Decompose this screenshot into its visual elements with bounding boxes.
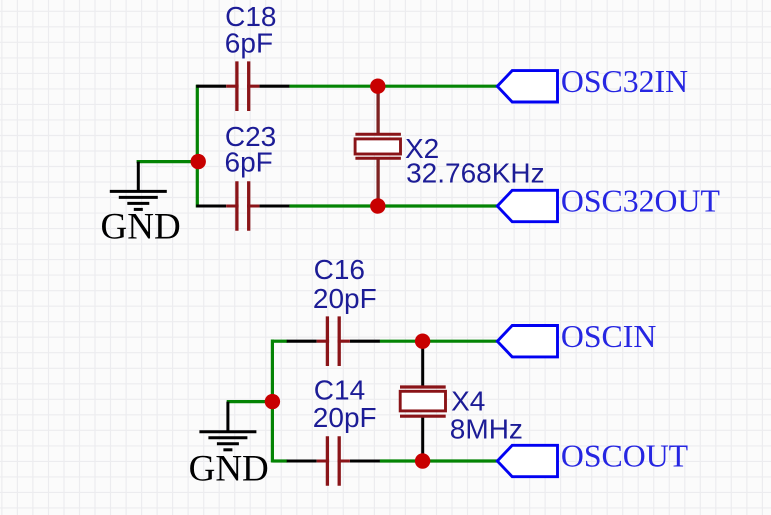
svg-text:20pF: 20pF xyxy=(313,402,377,433)
svg-text:8MHz: 8MHz xyxy=(450,413,523,444)
svg-text:OSCIN: OSCIN xyxy=(561,319,656,354)
wire: OSCIN net green xyxy=(380,340,498,343)
svg-text:6pF: 6pF xyxy=(225,28,273,59)
junction xyxy=(370,198,385,213)
svg-text:C16: C16 xyxy=(314,254,365,285)
ground xyxy=(199,432,256,450)
svg-text:20pF: 20pF xyxy=(313,283,377,314)
svg-text:6pF: 6pF xyxy=(225,147,273,178)
svg-text:C14: C14 xyxy=(314,374,365,405)
port OSCIN xyxy=(497,326,557,357)
svg-text:OSC32OUT: OSC32OUT xyxy=(561,184,720,219)
ground lead top circuit xyxy=(137,162,140,191)
wire: bottom circuit left vertical xyxy=(271,340,274,463)
ground lead bottom circuit xyxy=(226,402,229,431)
wire: OSC32IN net green xyxy=(289,85,497,88)
wire: OSCIN net green left stub xyxy=(272,340,287,343)
crystal X2 xyxy=(355,86,401,206)
svg-text:GND: GND xyxy=(101,207,181,248)
wire: GND stub to top circuit xyxy=(137,160,199,163)
wire: top circuit left vertical xyxy=(196,85,199,208)
svg-text:GND: GND xyxy=(189,449,269,490)
wire: OSCOUT net green left stub xyxy=(272,459,287,462)
junction xyxy=(370,79,385,94)
port OSCOUT xyxy=(497,445,557,476)
crystal X4 xyxy=(400,341,446,461)
capacitor C14 xyxy=(287,436,380,486)
svg-text:OSCOUT: OSCOUT xyxy=(561,439,688,474)
junction xyxy=(415,453,430,468)
svg-text:32.768KHz: 32.768KHz xyxy=(406,157,545,188)
svg-text:OSC32IN: OSC32IN xyxy=(561,64,688,99)
capacitor C18 xyxy=(196,61,289,111)
capacitor C23 xyxy=(196,181,289,231)
port OSC32OUT xyxy=(497,190,557,221)
wire: OSCOUT net green xyxy=(380,459,498,462)
wire: GND stub to bottom circuit xyxy=(227,400,274,403)
wire: OSC32OUT net green xyxy=(289,204,497,207)
junction xyxy=(191,154,206,169)
port OSC32IN xyxy=(497,71,557,102)
junction xyxy=(265,394,280,409)
svg-text:X4: X4 xyxy=(451,385,485,416)
capacitor C16 xyxy=(287,316,380,366)
ground xyxy=(110,191,167,209)
junction xyxy=(415,334,430,349)
